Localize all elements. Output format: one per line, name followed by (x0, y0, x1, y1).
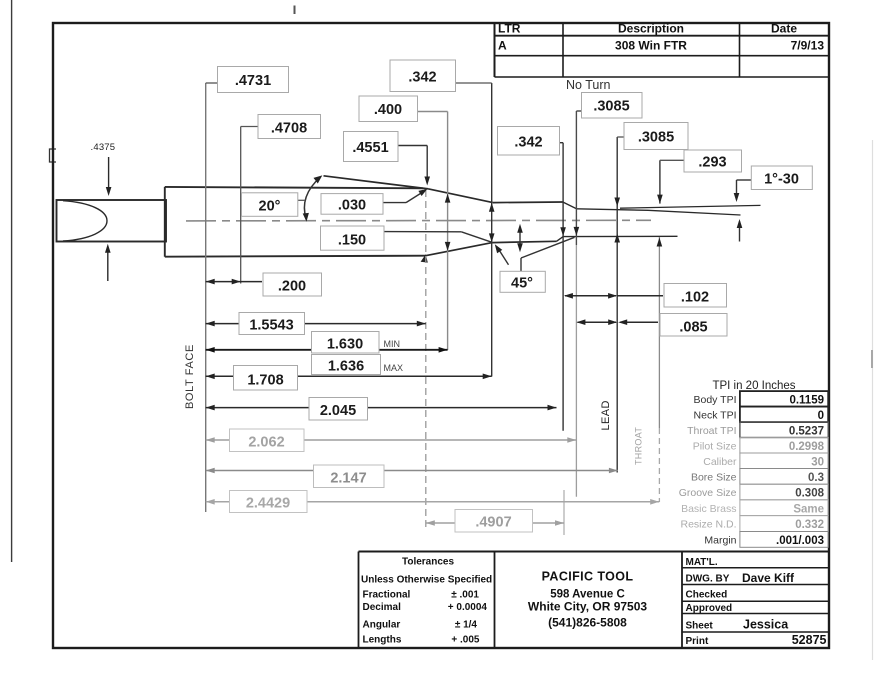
dimension label .4708 (241, 115, 321, 139)
svg-text:LEAD: LEAD (600, 400, 612, 430)
svg-text:Groove Size: Groove Size (679, 487, 737, 499)
dimension 2.062 (206, 429, 577, 452)
svg-text:.001/.003: .001/.003 (776, 535, 824, 547)
label BOLT FACE (184, 344, 196, 409)
svg-text:Body TPI: Body TPI (694, 394, 737, 406)
svg-text:+ 0.0004: + 0.0004 (448, 602, 488, 613)
svg-text:MAX: MAX (384, 363, 404, 373)
svg-text:Margin: Margin (704, 535, 736, 547)
extension line x576 (574, 111, 580, 497)
svg-text:Caliber: Caliber (703, 456, 737, 468)
label THROAT (634, 427, 644, 465)
svg-text:7/9/13: 7/9/13 (791, 39, 825, 53)
extension line x240 (240, 127, 242, 284)
centerline (186, 219, 651, 222)
svg-text:.342: .342 (514, 135, 542, 151)
svg-text:0.332: 0.332 (795, 519, 824, 531)
svg-text:Sheet: Sheet (686, 621, 714, 632)
svg-text:.3085: .3085 (638, 130, 674, 146)
extension line x491 (489, 83, 495, 377)
dimension label .293 (660, 150, 742, 172)
dimension 1.708 (206, 366, 492, 391)
extension line x659 upper (657, 160, 663, 203)
svg-text:Fractional: Fractional (363, 589, 411, 600)
svg-text:Resize N.D.: Resize N.D. (680, 519, 736, 531)
scan artifact top mark (294, 6, 296, 15)
dimension label .342 upper (390, 60, 492, 92)
svg-text:1.5543: 1.5543 (249, 318, 293, 334)
TPI row Body TPI (694, 394, 825, 407)
svg-text:.4731: .4731 (235, 73, 271, 89)
svg-text:Unless Otherwise Specified: Unless Otherwise Specified (361, 575, 492, 586)
dimension 1.5543 (206, 313, 426, 335)
svg-text:MIN: MIN (384, 339, 401, 349)
TPI row Groove Size (679, 487, 825, 500)
svg-text:BOLT FACE: BOLT FACE (184, 344, 196, 409)
company block (528, 570, 647, 630)
45 deg vertical double arrow (517, 224, 523, 252)
svg-text:30: 30 (811, 457, 824, 469)
scan artifact left edge line (11, 0, 13, 562)
svg-text:0: 0 (818, 410, 824, 422)
body taper line (324, 176, 429, 189)
leade taper line (648, 210, 741, 215)
bolt face datum extension line (205, 83, 207, 512)
svg-text:± 1/4: ± 1/4 (455, 619, 478, 630)
svg-text:.4907: .4907 (475, 515, 511, 531)
svg-text:PACIFIC TOOL: PACIFIC TOOL (542, 570, 634, 584)
label LEAD (600, 400, 612, 430)
TPI row Pilot Size (693, 441, 825, 454)
svg-text:.150: .150 (338, 233, 366, 249)
dimension label .150 (321, 226, 493, 250)
svg-text:Date: Date (771, 22, 797, 36)
svg-text:2.4429: 2.4429 (246, 496, 290, 512)
TPI row Resize N.D. (680, 519, 824, 532)
dimension label .400 (359, 96, 448, 122)
extension line x564 short (563, 490, 565, 535)
bore top segment (620, 205, 761, 208)
svg-text:Description: Description (618, 22, 684, 36)
svg-text:(541)826-5808: (541)826-5808 (548, 616, 627, 630)
svg-text:.4375: .4375 (91, 142, 116, 153)
drawing info block (682, 557, 829, 647)
svg-text:Checked: Checked (686, 590, 728, 601)
neck top line (493, 201, 563, 204)
svg-text:308 Win FTR: 308 Win FTR (615, 39, 687, 53)
svg-text:Same: Same (793, 503, 824, 515)
svg-text:Approved: Approved (686, 603, 733, 614)
extension line x659 lower (657, 237, 663, 502)
svg-text:Print: Print (686, 636, 709, 647)
dimension label 20 deg (242, 193, 306, 217)
extension line x447 (445, 112, 451, 351)
svg-text:Dave Kiff: Dave Kiff (742, 571, 795, 585)
svg-text:Throat TPI: Throat TPI (687, 425, 736, 437)
svg-text:.3085: .3085 (593, 99, 629, 115)
svg-text:1°-30: 1°-30 (764, 172, 799, 188)
extension line x425 dashed (425, 190, 427, 527)
dimension label .4731 (206, 67, 289, 93)
svg-text:THROAT: THROAT (634, 427, 644, 465)
title block frame (359, 552, 830, 649)
svg-text:.293: .293 (698, 155, 726, 171)
svg-text:2.147: 2.147 (330, 471, 366, 487)
angle dimension 20 deg arc (303, 175, 323, 221)
shoulder bottom line (421, 243, 493, 263)
svg-text:.102: .102 (681, 290, 709, 306)
svg-text:Lengths: Lengths (363, 635, 402, 646)
svg-text:2.062: 2.062 (248, 435, 284, 451)
dimension 1.636 MAX (312, 355, 404, 375)
dimension .4375 top arrow (106, 157, 112, 196)
TPI row Basic Brass (681, 503, 824, 516)
scan artifact right edge line (871, 140, 874, 660)
dimension label .4551 (344, 132, 431, 186)
dimension .4907 (426, 510, 564, 533)
svg-text:LTR: LTR (498, 22, 521, 36)
svg-text:No Turn: No Turn (566, 78, 611, 92)
freebore top line (577, 209, 649, 211)
svg-text:Basic Brass: Basic Brass (681, 503, 736, 515)
TPI row Throat TPI (687, 425, 824, 438)
svg-text:Tolerances: Tolerances (402, 557, 454, 568)
svg-text:20°: 20° (259, 199, 281, 215)
extension line x617 (614, 137, 620, 473)
dimension label 1deg-30 (734, 166, 813, 202)
neck step top (563, 202, 577, 209)
TPI row Caliber (703, 456, 824, 469)
dimension .200 (206, 273, 322, 296)
TPI table (740, 391, 828, 547)
svg-text:.200: .200 (278, 279, 306, 295)
dimension .4375 label (91, 142, 116, 153)
neck step bottom (557, 237, 564, 242)
extension line x563 (560, 143, 566, 431)
svg-text:0.308: 0.308 (795, 488, 824, 500)
svg-text:Angular: Angular (363, 619, 401, 630)
svg-text:2.045: 2.045 (320, 403, 356, 419)
svg-text:MAT'L.: MAT'L. (686, 557, 718, 568)
dimension label .030 (321, 189, 428, 214)
neck bottom line (492, 241, 556, 242)
svg-text:.4708: .4708 (271, 121, 307, 137)
dimension .085 (576, 314, 727, 337)
TPI row Neck TPI (694, 410, 824, 423)
dimension .4375 bottom arrow (105, 244, 111, 281)
svg-text:.4551: .4551 (352, 140, 388, 156)
svg-text:.085: .085 (679, 320, 707, 336)
svg-text:1.708: 1.708 (247, 373, 283, 389)
dimension label 45 deg (495, 237, 575, 292)
svg-text:Pilot Size: Pilot Size (693, 441, 737, 453)
TPI table title (712, 380, 795, 392)
reamer body outline (165, 187, 426, 257)
svg-text:1.636: 1.636 (328, 359, 364, 375)
cartridge head outline (57, 200, 167, 242)
svg-text:45°: 45° (511, 276, 533, 292)
bore end arrow (737, 219, 743, 242)
svg-text:0.1159: 0.1159 (789, 395, 824, 407)
svg-text:Jessica: Jessica (743, 618, 789, 632)
svg-text:DWG. BY: DWG. BY (686, 574, 730, 585)
tolerances block (361, 557, 492, 646)
dimension .102 (564, 284, 727, 308)
svg-text:.342: .342 (408, 70, 436, 86)
TPI row Bore Size (691, 472, 824, 485)
TPI row Margin (704, 535, 824, 548)
freebore bottom line (563, 235, 677, 237)
svg-text:0.2998: 0.2998 (789, 441, 825, 453)
svg-text:.400: .400 (374, 102, 402, 118)
svg-text:Bore Size: Bore Size (691, 472, 737, 484)
svg-text:0.3: 0.3 (808, 472, 824, 484)
note No Turn (566, 78, 611, 92)
svg-text:0.5237: 0.5237 (789, 426, 824, 438)
svg-text:Neck TPI: Neck TPI (694, 410, 737, 422)
svg-text:+ .005: + .005 (451, 635, 480, 646)
svg-text:± .001: ± .001 (451, 590, 479, 601)
dimension label .342 neck (498, 127, 564, 156)
svg-text:A: A (498, 39, 507, 53)
svg-text:Decimal: Decimal (363, 602, 402, 613)
svg-text:.030: .030 (338, 198, 366, 214)
revision table (495, 22, 830, 78)
scan artifact left border bracket (50, 149, 57, 162)
svg-text:White City, OR 97503: White City, OR 97503 (528, 600, 647, 614)
dimension 2.045 (206, 398, 557, 421)
dimension 2.147 (206, 465, 618, 488)
dimension 2.4429 (206, 491, 660, 513)
dimension label .3085 first (576, 93, 642, 119)
dimension 1.630 MIN (206, 332, 448, 354)
svg-text:52875: 52875 (792, 633, 827, 647)
dimension label .3085 second (617, 123, 688, 150)
svg-text:1.630: 1.630 (327, 337, 363, 353)
shoulder top line (429, 189, 493, 203)
